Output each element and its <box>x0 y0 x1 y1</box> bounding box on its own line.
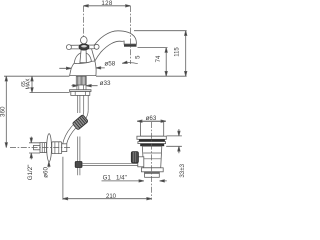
drain knurled knob <box>131 152 138 163</box>
svg-text:360: 360 <box>0 106 7 117</box>
supply stub to tube <box>62 144 67 152</box>
svg-text:115: 115 <box>175 47 181 57</box>
dim G1 1/4 <box>102 180 167 182</box>
drain tail pipe <box>145 172 160 178</box>
threaded shank <box>76 76 86 85</box>
svg-text:ø33: ø33 <box>100 80 111 87</box>
drain seal band 1 <box>139 139 165 141</box>
ext line spout top <box>134 30 187 32</box>
svg-text:210: 210 <box>106 194 117 200</box>
pop-up rod (upper) <box>78 95 80 113</box>
dim 128 <box>84 5 131 7</box>
faucet body <box>70 61 97 76</box>
spout <box>92 31 137 61</box>
tube coupling nut <box>72 115 88 130</box>
wall supply pipe stub <box>34 145 41 149</box>
dim o33 <box>72 85 98 87</box>
handle hub <box>79 44 89 50</box>
supply tube upper <box>84 95 89 111</box>
supply hex nut small <box>40 143 47 153</box>
horizontal pop-up rod <box>82 164 138 166</box>
deck line right <box>96 75 187 77</box>
spout outlet aerator <box>124 44 137 47</box>
svg-text:ø60: ø60 <box>43 167 50 178</box>
supply tube lower curve <box>63 125 77 145</box>
centerline faucet axis <box>83 6 85 37</box>
svg-text:74: 74 <box>156 55 162 62</box>
dim o63 <box>137 120 166 122</box>
dim 210 <box>62 157 64 200</box>
deck line left <box>4 75 69 77</box>
svg-text:G1 1/4": G1 1/4" <box>103 174 127 181</box>
handle skirt <box>74 53 91 64</box>
svg-text:ø58: ø58 <box>104 61 115 68</box>
handle cross: left arm <box>71 45 81 49</box>
dim G1/2 <box>29 143 40 153</box>
supply hex nut large G1/2 <box>52 142 62 154</box>
handle neck <box>80 50 86 63</box>
handle cross: top arm <box>81 37 88 44</box>
dim 5 (spout angle) <box>122 63 138 64</box>
pop-up rod (lower) <box>78 137 80 176</box>
svg-text:MAX: MAX <box>26 78 32 90</box>
dim o60 leader <box>48 162 50 168</box>
dim 74 <box>165 48 167 77</box>
svg-text:G1/2": G1/2" <box>27 165 34 181</box>
drain white ring <box>138 142 166 144</box>
rod clamp <box>75 162 82 168</box>
drain body <box>142 146 162 168</box>
drain seal band 2 <box>140 144 164 147</box>
mounting washer and nut <box>70 90 91 92</box>
pipes between shank and washer <box>77 85 86 90</box>
drain flange disc <box>137 136 166 139</box>
dim 115 <box>185 31 187 76</box>
ext line outlet level <box>138 47 168 49</box>
svg-text:ø63: ø63 <box>146 115 157 122</box>
dim 33+-3 <box>166 136 182 146</box>
dim o58 <box>59 67 105 69</box>
svg-text:128: 128 <box>101 0 112 7</box>
drain tee stem <box>138 157 144 167</box>
dim 360 <box>5 76 7 147</box>
wall flange (escutcheon) <box>47 134 52 162</box>
handle cross: right arm <box>86 45 95 49</box>
dim 65 MAX <box>30 92 70 94</box>
centerline supply pipe axis <box>10 147 71 149</box>
centerline spout outlet axis <box>129 6 131 64</box>
centerline drain axis <box>150 122 152 200</box>
drain bottom ring <box>141 168 163 172</box>
drain cap <box>140 121 163 136</box>
svg-text:33±3: 33±3 <box>179 163 186 177</box>
